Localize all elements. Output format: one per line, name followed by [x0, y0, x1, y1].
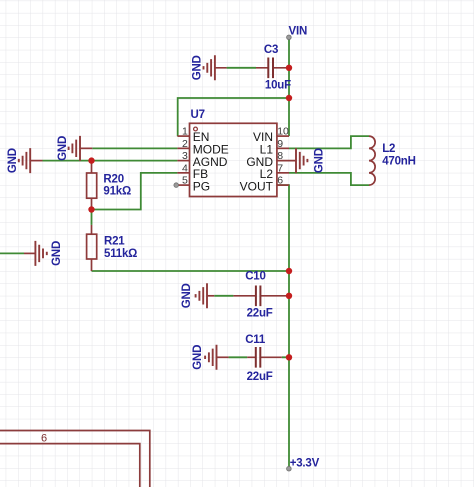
svg-text:91kΩ: 91kΩ — [103, 186, 131, 198]
node +3.3V endpoint — [287, 466, 292, 471]
pin 4 FB stub — [177, 172, 189, 174]
svg-text:470nH: 470nH — [382, 155, 416, 167]
svg-text:R21: R21 — [104, 235, 125, 247]
resistor R21 — [87, 225, 97, 271]
ground at C11 — [192, 345, 229, 370]
wire left edge to GND — [0, 252, 24, 254]
wire GND to C10 — [214, 295, 233, 297]
svg-text:GND: GND — [7, 148, 19, 173]
ground at C3 — [191, 55, 215, 80]
svg-text:4: 4 — [182, 162, 188, 174]
wire L1 pin to inductor top — [289, 136, 369, 148]
svg-text:6: 6 — [41, 433, 47, 445]
svg-text:10: 10 — [277, 126, 289, 138]
resistor R20 — [87, 161, 97, 210]
node PG endpoint — [174, 183, 179, 188]
junction C11/+3.3V — [286, 354, 292, 360]
pin 3 AGND stub — [177, 160, 189, 162]
junction C3/VIN — [286, 65, 292, 71]
svg-text:8: 8 — [277, 150, 283, 162]
svg-text:10uF: 10uF — [265, 80, 291, 92]
ground at left wire — [24, 241, 63, 266]
svg-text:+3.3V: +3.3V — [290, 458, 320, 470]
wire C3 to VIN net — [227, 67, 256, 69]
svg-text:GND: GND — [192, 345, 204, 370]
pin 1 EN stub — [177, 135, 189, 137]
junction C10/+3.3V — [286, 293, 292, 299]
wire VOUT vertical (net +3.3V) — [277, 185, 289, 469]
capacitor C10 — [233, 286, 289, 307]
pin 8 GND stub — [277, 160, 296, 162]
capacitor C3 — [215, 58, 289, 79]
pin 10 VIN stub — [277, 135, 289, 137]
wire R20 bottom to R21 top — [91, 210, 93, 225]
svg-text:9: 9 — [277, 138, 283, 150]
svg-text:R20: R20 — [103, 173, 124, 185]
inductor L2 — [369, 136, 375, 185]
junction AGND/R20 — [88, 157, 94, 163]
junction R21/+3.3V — [286, 268, 292, 274]
ground at AGND — [7, 148, 43, 173]
svg-text:VIN: VIN — [289, 26, 308, 38]
wire EN to VIN net — [178, 98, 289, 136]
svg-text:GND: GND — [191, 55, 203, 80]
svg-text:3: 3 — [182, 150, 188, 162]
svg-text:GND: GND — [57, 136, 69, 161]
node VIN endpoint — [287, 35, 292, 40]
wire R21 bottom horizontal — [92, 270, 290, 272]
svg-text:GND: GND — [181, 283, 193, 308]
junction R20/R21/FB — [88, 206, 94, 212]
svg-text:22uF: 22uF — [247, 371, 273, 383]
wire VIN vertical (net VIN) — [288, 37, 290, 136]
frame outer border — [0, 431, 150, 487]
wire GND to MODE pin — [92, 147, 177, 149]
wire GND to AGND pin — [43, 160, 178, 162]
svg-text:22uF: 22uF — [247, 308, 273, 320]
svg-text:C11: C11 — [245, 334, 266, 346]
svg-text:L2: L2 — [382, 143, 395, 155]
svg-text:PG: PG — [193, 179, 210, 193]
svg-text:C3: C3 — [264, 44, 278, 56]
EN inversion circle — [194, 127, 198, 131]
pin 6 VOUT stub — [277, 184, 289, 186]
capacitor C11 — [247, 347, 282, 368]
wire L2 pin to inductor bottom — [289, 173, 369, 185]
svg-text:C10: C10 — [245, 271, 266, 283]
op-amp U7 (IC body) — [190, 123, 277, 196]
svg-text:U7: U7 — [191, 109, 205, 121]
svg-text:7: 7 — [277, 162, 283, 174]
pin 2 MODE stub — [177, 147, 189, 149]
ground at C10 — [181, 283, 214, 308]
frame inner border — [0, 444, 140, 487]
pin 9 L1 stub — [277, 147, 289, 149]
wire FB to R20/R21 node — [92, 173, 178, 210]
wire GND to C11 — [229, 356, 289, 358]
junction EN/VIN — [286, 95, 292, 101]
svg-text:1: 1 — [182, 126, 188, 138]
svg-text:VOUT: VOUT — [240, 179, 274, 193]
svg-text:2: 2 — [182, 138, 188, 150]
ground at pin 8 — [296, 148, 326, 173]
ground at MODE — [57, 136, 93, 161]
svg-text:6: 6 — [277, 175, 283, 187]
pin 5 PG stub — [177, 184, 189, 186]
svg-text:GND: GND — [314, 148, 326, 173]
svg-text:511kΩ: 511kΩ — [104, 248, 137, 260]
pin 7 L2 stub — [277, 172, 289, 174]
svg-text:GND: GND — [51, 241, 63, 266]
svg-text:5: 5 — [182, 175, 188, 187]
